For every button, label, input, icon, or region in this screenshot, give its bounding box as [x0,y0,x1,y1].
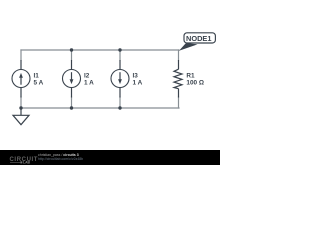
svg-text:I1: I1 [34,72,40,79]
svg-text:I2: I2 [84,72,90,79]
svg-text:R1: R1 [186,72,195,79]
svg-text:NODE1: NODE1 [186,34,211,43]
svg-text:1 A: 1 A [133,80,143,87]
svg-text:100 Ω: 100 Ω [186,80,204,87]
svg-text:http://circuitlab.com/c/v2z48b: http://circuitlab.com/c/v2z48b [38,157,83,161]
svg-text:1 A: 1 A [84,80,94,87]
svg-text:5 A: 5 A [34,80,44,87]
svg-text:I3: I3 [133,72,139,79]
svg-text:LAB: LAB [23,161,31,165]
